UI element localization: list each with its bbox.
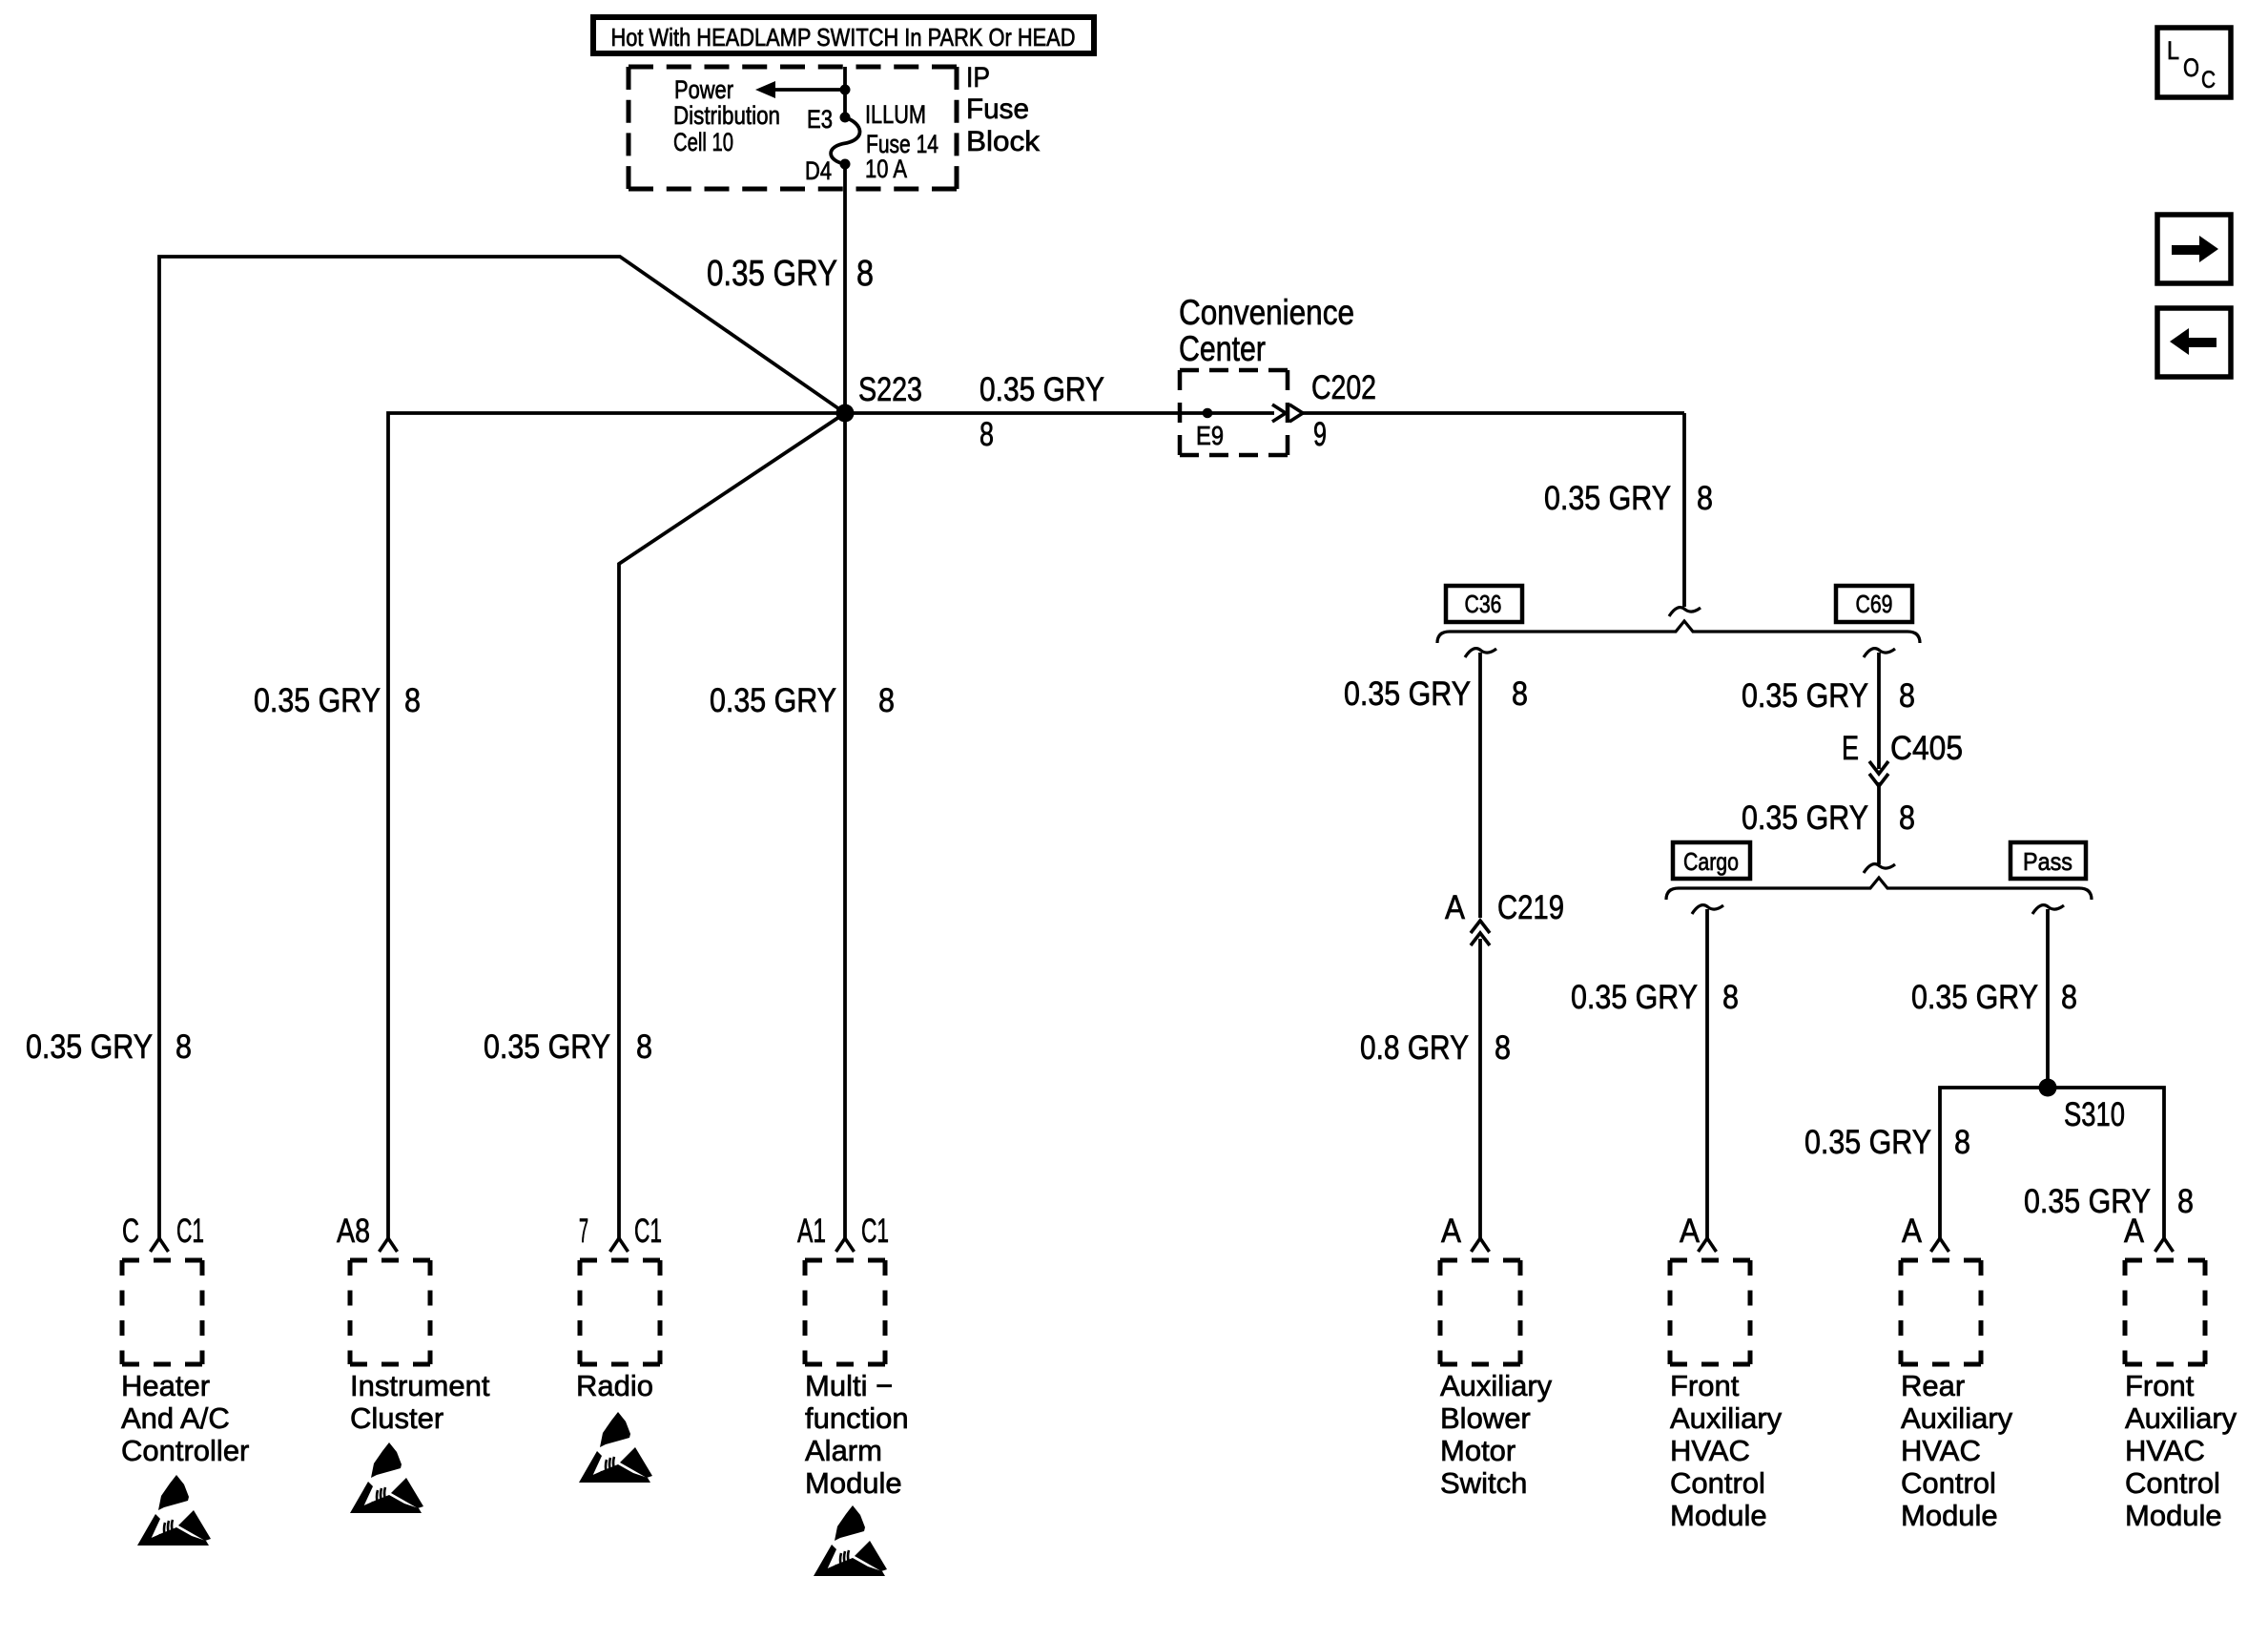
svg-text:7: 7 <box>579 1213 588 1250</box>
svg-text:A: A <box>1445 889 1466 926</box>
svg-text:IP: IP <box>966 62 990 93</box>
svg-text:9: 9 <box>1313 416 1327 453</box>
svg-text:Auxiliary: Auxiliary <box>1901 1401 2013 1435</box>
svg-text:S310: S310 <box>2064 1096 2125 1133</box>
svg-text:Multi −: Multi − <box>805 1369 893 1402</box>
svg-text:Auxiliary: Auxiliary <box>1440 1369 1553 1402</box>
svg-text:8: 8 <box>636 1028 652 1066</box>
svg-text:C36: C36 <box>1465 590 1502 618</box>
svg-text:0.35 GRY: 0.35 GRY <box>1742 677 1868 715</box>
svg-text:8: 8 <box>175 1028 192 1066</box>
svg-text:HVAC: HVAC <box>2125 1434 2205 1467</box>
svg-text:Module: Module <box>805 1466 902 1500</box>
svg-text:Alarm: Alarm <box>805 1434 882 1467</box>
svg-text:0.35 GRY: 0.35 GRY <box>26 1028 153 1066</box>
svg-text:S223: S223 <box>858 371 922 408</box>
svg-text:Front: Front <box>1670 1369 1740 1402</box>
svg-text:0.35 GRY: 0.35 GRY <box>1742 799 1868 837</box>
svg-text:Rear: Rear <box>1901 1369 1965 1402</box>
svg-text:8: 8 <box>979 416 994 453</box>
svg-text:Module: Module <box>1670 1499 1767 1532</box>
svg-text:0.35 GRY: 0.35 GRY <box>484 1028 610 1066</box>
svg-text:HVAC: HVAC <box>1901 1434 1981 1467</box>
svg-text:8: 8 <box>1697 480 1713 517</box>
svg-text:Hot With HEADLAMP SWITCH In PA: Hot With HEADLAMP SWITCH In PARK Or HEAD <box>611 23 1076 52</box>
svg-text:A8: A8 <box>337 1213 370 1250</box>
svg-text:Control: Control <box>2125 1466 2220 1500</box>
svg-text:Cluster: Cluster <box>350 1401 443 1435</box>
svg-text:Auxiliary: Auxiliary <box>1670 1401 1783 1435</box>
svg-text:Pass: Pass <box>2023 847 2072 876</box>
svg-text:function: function <box>805 1401 909 1435</box>
svg-text:0.35 GRY: 0.35 GRY <box>1344 675 1471 713</box>
svg-text:0.35 GRY: 0.35 GRY <box>707 254 837 294</box>
svg-text:0.35 GRY: 0.35 GRY <box>979 371 1104 408</box>
svg-text:E9: E9 <box>1196 421 1224 450</box>
svg-text:ILLUM: ILLUM <box>865 100 926 129</box>
svg-text:D4: D4 <box>805 156 832 185</box>
svg-text:Cargo: Cargo <box>1683 847 1739 876</box>
svg-text:Cell 10: Cell 10 <box>673 128 733 156</box>
svg-text:Convenience: Convenience <box>1179 293 1354 332</box>
svg-text:0.35 GRY: 0.35 GRY <box>1544 480 1671 517</box>
svg-text:A: A <box>2124 1213 2145 1250</box>
svg-text:C69: C69 <box>1856 590 1893 618</box>
svg-text:C405: C405 <box>1890 730 1963 767</box>
svg-text:Auxiliary: Auxiliary <box>2125 1401 2237 1435</box>
svg-text:Block: Block <box>966 126 1041 157</box>
svg-text:Instrument: Instrument <box>350 1369 490 1402</box>
svg-text:Module: Module <box>2125 1499 2222 1532</box>
svg-text:8: 8 <box>1954 1124 1970 1161</box>
svg-text:Control: Control <box>1670 1466 1765 1500</box>
svg-text:C1: C1 <box>176 1213 204 1250</box>
svg-text:C1: C1 <box>634 1213 662 1250</box>
svg-text:Controller: Controller <box>121 1434 249 1467</box>
svg-text:0.35 GRY: 0.35 GRY <box>1804 1124 1931 1161</box>
svg-text:Blower: Blower <box>1440 1401 1531 1435</box>
svg-text:Distribution: Distribution <box>673 101 780 130</box>
svg-text:8: 8 <box>856 254 874 294</box>
svg-text:Control: Control <box>1901 1466 1996 1500</box>
svg-text:C1: C1 <box>861 1213 889 1250</box>
svg-text:C202: C202 <box>1311 369 1376 406</box>
svg-text:Module: Module <box>1901 1499 1998 1532</box>
svg-text:L: L <box>2167 36 2179 65</box>
svg-text:0.35 GRY: 0.35 GRY <box>710 682 836 719</box>
svg-text:8: 8 <box>1495 1029 1511 1067</box>
svg-text:8: 8 <box>1899 677 1915 715</box>
svg-text:10 A: 10 A <box>865 155 907 183</box>
svg-text:E3: E3 <box>807 105 833 134</box>
svg-text:O: O <box>2183 53 2199 82</box>
svg-text:8: 8 <box>2061 979 2077 1016</box>
svg-text:8: 8 <box>878 682 895 719</box>
svg-text:Motor: Motor <box>1440 1434 1515 1467</box>
svg-text:8: 8 <box>1899 799 1915 837</box>
svg-text:8: 8 <box>1512 675 1528 713</box>
svg-text:And A/C: And A/C <box>121 1401 230 1435</box>
svg-text:Fuse: Fuse <box>966 93 1029 125</box>
svg-text:C219: C219 <box>1497 889 1564 926</box>
svg-text:0.8 GRY: 0.8 GRY <box>1360 1029 1469 1067</box>
svg-text:A: A <box>1441 1213 1462 1250</box>
svg-text:Front: Front <box>2125 1369 2195 1402</box>
svg-text:A1: A1 <box>797 1213 826 1250</box>
svg-text:8: 8 <box>1722 979 1739 1016</box>
svg-text:0.35 GRY: 0.35 GRY <box>1911 979 2038 1016</box>
svg-text:Power: Power <box>674 75 733 104</box>
svg-text:8: 8 <box>2177 1183 2194 1220</box>
svg-text:Switch: Switch <box>1440 1466 1527 1500</box>
svg-text:A: A <box>1680 1213 1701 1250</box>
svg-text:Heater: Heater <box>121 1369 210 1402</box>
svg-text:8: 8 <box>404 682 421 719</box>
svg-text:HVAC: HVAC <box>1670 1434 1750 1467</box>
svg-text:Center: Center <box>1179 329 1266 368</box>
svg-text:C: C <box>2201 67 2216 93</box>
svg-text:E: E <box>1842 730 1859 767</box>
svg-text:Radio: Radio <box>576 1369 653 1402</box>
svg-text:C: C <box>122 1213 139 1250</box>
svg-text:A: A <box>1902 1213 1923 1250</box>
svg-text:0.35 GRY: 0.35 GRY <box>254 682 381 719</box>
svg-text:0.35 GRY: 0.35 GRY <box>1571 979 1698 1016</box>
